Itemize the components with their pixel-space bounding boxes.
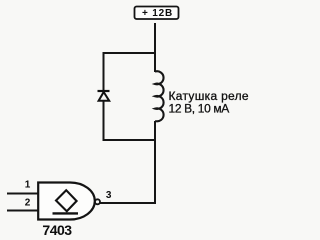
svg-text:7403: 7403 [42, 222, 72, 238]
wire gate output to coil [100, 202, 156, 204]
diode D1 (cathode up, flyback across relay coil) [98, 91, 110, 101]
wire bottom horizontal of parallel branch [103, 139, 157, 141]
svg-text:3: 3 [106, 190, 112, 201]
input wire pin 1 [7, 193, 39, 195]
output inversion bubble [95, 199, 100, 204]
svg-text:1: 1 [25, 180, 31, 191]
input wire pin 2 [7, 210, 39, 212]
open-collector diamond symbol [56, 190, 77, 211]
NAND gate U1 body (7403 open-collector) [38, 183, 95, 220]
wire diode branch vertical [103, 52, 105, 141]
open-collector underline [53, 212, 79, 214]
svg-text:12 В, 10 мА: 12 В, 10 мА [169, 102, 230, 116]
svg-text:2: 2 [25, 198, 31, 209]
wire coil bottom to lower junction [154, 121, 156, 204]
power rail +12V box [135, 7, 179, 20]
wire from +12V box down to top junction [154, 23, 156, 72]
relay coil L1 [155, 71, 164, 121]
wire top horizontal of parallel branch [103, 52, 157, 54]
coil label [169, 89, 249, 115]
svg-text:+ 12В: + 12В [142, 8, 173, 19]
